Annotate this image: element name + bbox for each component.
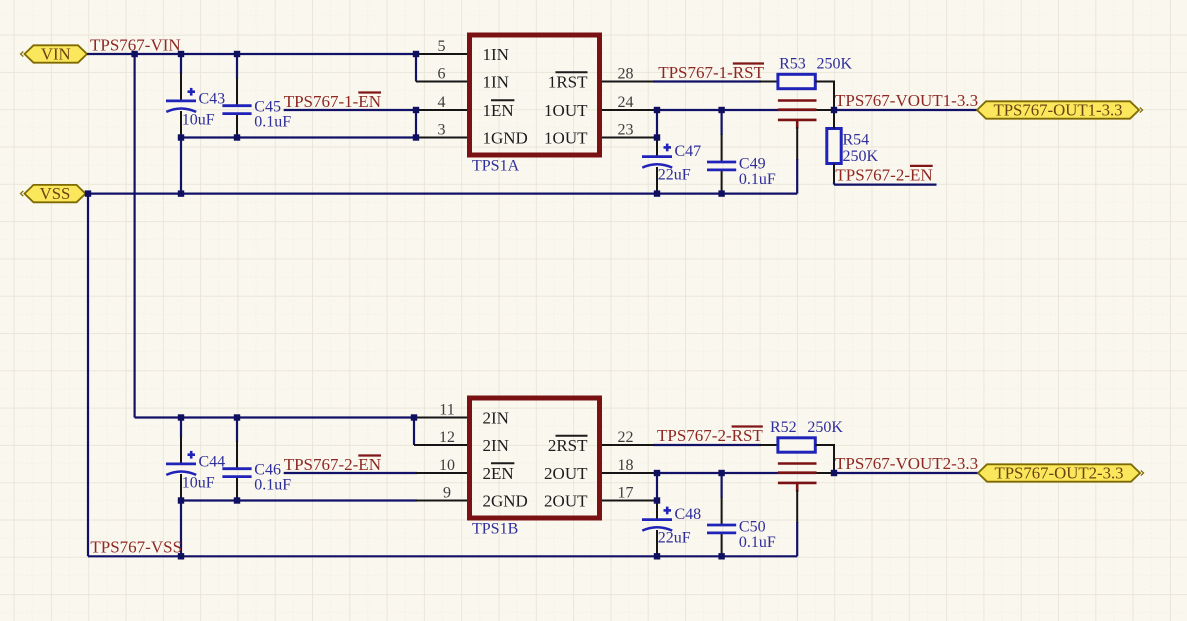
bottom pin of probe marker (lower) [796,490,798,523]
svg-text:1IN: 1IN [483,73,509,92]
overline of RST in TPS767-1-RST [733,62,764,64]
svg-text:10uF: 10uF [182,112,215,129]
wire 1GND rail [181,136,416,138]
svg-text:250K: 250K [817,56,853,73]
junction C45/GND rail [234,134,240,140]
svg-text:TPS767-1-RST: TPS767-1-RST [658,63,764,82]
svg-text:TPS767-2-EN: TPS767-2-EN [835,165,932,184]
pin 2 lead of R54 [833,164,835,184]
capacitor C49 [707,162,736,170]
pin 11 of U TPS1B [414,417,467,419]
wire 1IN pin5 to pin6 vertical [415,54,417,82]
pin 2 lead of C46 [236,477,238,501]
svg-text:22: 22 [618,429,634,446]
wire 1EN net [284,109,416,111]
svg-text:2OUT: 2OUT [544,492,588,511]
svg-text:C47: C47 [675,143,702,160]
overline of EN in TPS767-2-EN (left) [358,454,381,456]
svg-text:0.1uF: 0.1uF [254,114,291,131]
svg-text:250K: 250K [843,148,879,165]
svg-text:4: 4 [438,94,446,111]
pin 17 of U TPS1B [602,500,653,502]
wire 2IN net horizontal [135,416,414,418]
wire 1RST to R53 [653,80,761,82]
junction VIN/pin5-6 [413,51,419,57]
pin 2 lead of R53 corner down to VOUT1 node [833,82,835,111]
svg-text:11: 11 [439,402,454,419]
svg-text:1GND: 1GND [483,129,528,148]
svg-text:2OUT: 2OUT [544,464,588,483]
svg-text:VSS: VSS [40,184,71,203]
svg-text:18: 18 [618,457,634,474]
wire 2EN net [284,472,417,474]
svg-text:10: 10 [439,457,455,474]
wire C49 upper lead [720,110,722,135]
wire probe marker to VSS rail [796,159,798,194]
junction C44/2GND rail [178,497,184,503]
wire VIN net vertical to lower section [134,54,136,418]
wire C46 upper lead [236,418,238,443]
pin 3 of U TPS1A [416,137,467,139]
port TPS767-OUT1-3.3 [977,101,1143,120]
junction VOUT1 node [831,107,837,113]
pin 10 of U TPS1B [416,472,467,474]
wire C43 to VSS rail vertical [180,138,182,194]
capacitor C50 [707,525,736,533]
wire 1EN to 1GND vertical [415,110,417,138]
svg-text:0.1uF: 0.1uF [739,171,776,188]
junction VIN/C43 [178,51,184,57]
svg-text:2IN: 2IN [483,409,509,428]
junction C49/VSS rail [718,190,724,196]
wire C44 to bottom VSS rail vertical [180,501,182,557]
svg-text:3: 3 [438,122,446,139]
junction VIN/vertical [131,51,137,57]
wire C47 tap vertical [656,110,658,138]
junction 2IN/C46 [234,414,240,420]
svg-text:TPS767-2-EN: TPS767-2-EN [284,455,381,474]
junction VIN/C45 [234,51,240,57]
pin 12 of U TPS1B [414,444,467,446]
pin 1 lead of R52 [760,444,778,446]
svg-text:TPS767-2-RST: TPS767-2-RST [657,426,763,445]
wire C48 tap vertical [656,473,658,501]
wire VSS vertical to lower rail [87,194,89,557]
svg-text:0.1uF: 0.1uF [254,477,291,494]
svg-text:2EN: 2EN [483,464,514,483]
op-amp regulator IC U TPS1A (TPS767 section A) [470,35,600,155]
svg-text:23: 23 [618,122,634,139]
svg-text:1OUT: 1OUT [544,129,588,148]
pin 1 lead of C44 [180,437,182,464]
svg-text:1EN: 1EN [483,101,514,120]
capacitor C45 [222,106,251,114]
right pin of probe marker to VOUT1 node [815,109,834,111]
bottom pin of probe marker [796,127,798,160]
capacitor C44 (polarized) [166,451,196,475]
junction C48/bottom rail [654,553,660,559]
port VSS [21,184,86,203]
svg-text:TPS767-VOUT2-3.3: TPS767-VOUT2-3.3 [835,454,978,473]
svg-text:10uF: 10uF [182,475,215,492]
right pin of probe marker to VOUT2 node [815,472,834,474]
wire C44 upper lead [180,418,182,438]
pin 18 of U TPS1B [602,472,653,474]
pin 2 lead of C45 [236,114,238,138]
svg-text:17: 17 [618,485,634,502]
wire probe marker to bottom VSS rail [796,522,798,556]
svg-text:TPS767-OUT1-3.3: TPS767-OUT1-3.3 [993,101,1122,120]
wire 1OUT pin24 to output node [653,109,816,111]
regulator IC U TPS1B (TPS767 section B) [470,398,600,518]
pin 9 of U TPS1B [416,500,467,502]
wire C50 upper lead [720,473,722,498]
wire 2IN pin11 to pin12 vertical [413,418,415,446]
pin 1 lead of C46 [236,441,238,469]
junction VOUT2/C50 [718,470,724,476]
junction 2IN/C44 [178,414,184,420]
svg-text:C49: C49 [739,156,766,173]
overline of RST in TPS767-2-RST [732,425,763,427]
pin 1 lead of C47 [656,138,658,157]
junction pin23/C47 tap [654,134,660,140]
svg-text:R54: R54 [843,132,870,149]
svg-text:C44: C44 [199,454,226,471]
port TPS767-OUT2-3.3 [978,464,1144,483]
wire 2RST to R52 [653,444,761,446]
svg-text:C48: C48 [675,506,702,523]
svg-text:2GND: 2GND [483,492,528,511]
svg-text:C50: C50 [739,519,766,536]
pin 1 lead of R54 [833,110,835,129]
pin 24 of U TPS1A [602,109,653,111]
pin 2 lead of R52 to corner [815,444,835,446]
pin 1 lead of C50 [721,497,723,525]
wire VIN net horizontal [87,53,416,55]
wire C45 upper lead [236,54,238,79]
wire bottom VSS rail [88,555,797,557]
svg-text:24: 24 [618,94,634,111]
pin 2 lead of C47 [656,167,658,194]
pin 2 lead of C48 [656,530,658,556]
junction 2IN/pin11-12 [411,414,417,420]
resistor R52 [778,438,815,452]
svg-text:22uF: 22uF [658,167,691,184]
pin 22 of U TPS1B [602,444,653,446]
svg-text:VIN: VIN [41,45,71,64]
junction VOUT2 node [831,470,837,476]
pin 1 lead of C43 [180,73,182,101]
capacitor C43 (polarized) [166,88,196,112]
junction 1EN/pin4 [413,107,419,113]
pin 1 lead of C49 [721,134,723,162]
junction pin17/C48 tap [654,497,660,503]
probe marker symbol on VOUT1 (dark red) [778,101,817,129]
wire VOUT2 node to output port [834,472,978,474]
pin 23 of U TPS1A [602,137,653,139]
pin 2 lead of C49 [721,170,723,194]
svg-text:TPS1B: TPS1B [472,520,518,537]
junction VOUT1/C49 [718,107,724,113]
wire R54 bottom corner [833,182,835,185]
overline of EN in TPS767-2-EN (at R54) [910,165,933,167]
wire VSS rail [88,193,797,195]
capacitor C47 (polarized) [642,144,672,168]
pin 1 lead of C48 [656,501,658,520]
pin 2 lead of C44 [180,474,182,501]
svg-text:6: 6 [438,66,446,83]
wire TPS767-2-EN stub [834,184,937,186]
svg-text:0.1uF: 0.1uF [739,534,776,551]
junction C44 branch/bottom rail [178,553,184,559]
port VIN [21,45,88,64]
svg-text:250K: 250K [807,419,843,436]
svg-text:2IN: 2IN [483,436,509,455]
junction VSS port [85,190,91,196]
svg-text:TPS767-OUT2-3.3: TPS767-OUT2-3.3 [994,464,1123,483]
pin 6 of U TPS1A [416,81,467,83]
resistor R53 [778,74,815,88]
resistor R54 [827,129,841,164]
svg-text:1IN: 1IN [483,45,509,64]
pin 5 of U TPS1A [416,53,467,55]
wire 2OUT pin18 to output node [653,472,816,474]
junction C43 branch/VSS rail [178,190,184,196]
svg-text:R52: R52 [770,419,797,436]
svg-text:9: 9 [443,485,451,502]
svg-text:28: 28 [618,66,634,83]
svg-text:TPS767-1-EN: TPS767-1-EN [284,92,381,111]
junction C46/2GND rail [234,497,240,503]
pin 2 lead of C43 [180,111,182,138]
pin 4 of U TPS1A [416,109,467,111]
wire VOUT1 node to output port [834,109,977,111]
wire 2GND rail [181,499,417,501]
pin 2 lead of R52 corner down to VOUT2 node [833,445,835,473]
junction C50/bottom rail [718,553,724,559]
junction 1GND/pin3 [413,134,419,140]
svg-text:R53: R53 [779,56,806,73]
junction VOUT2/C48 [654,470,660,476]
pin 1 lead of R53 [760,81,778,83]
svg-text:5: 5 [438,38,446,55]
svg-text:22uF: 22uF [658,530,691,547]
svg-text:12: 12 [439,429,455,446]
svg-text:C43: C43 [199,91,226,108]
svg-text:1OUT: 1OUT [544,101,588,120]
pin 2 lead of R53 to corner [815,81,835,83]
wire C43 upper lead [180,54,182,74]
wire pin23 stub to C47 tap [653,136,657,138]
junction C47/VSS rail [654,190,660,196]
pin 2 lead of C50 [721,533,723,556]
pin 28 of U TPS1A [602,81,653,83]
junction VOUT1/C47 [654,107,660,113]
capacitor C48 (polarized) [642,507,672,531]
svg-text:2RST: 2RST [548,436,588,455]
svg-text:TPS767-VSS: TPS767-VSS [90,538,182,557]
probe marker symbol on VOUT2 (dark red) [778,464,817,492]
capacitor C46 [222,469,251,477]
pin 1 lead of C45 [236,78,238,106]
wire pin17 stub to C48 tap [653,499,657,501]
overline of EN in TPS767-1-EN [358,91,381,93]
svg-text:TPS1A: TPS1A [472,157,520,174]
svg-text:1RST: 1RST [548,73,588,92]
svg-text:TPS767-VOUT1-3.3: TPS767-VOUT1-3.3 [835,91,978,110]
junction C43/GND rail [178,134,184,140]
